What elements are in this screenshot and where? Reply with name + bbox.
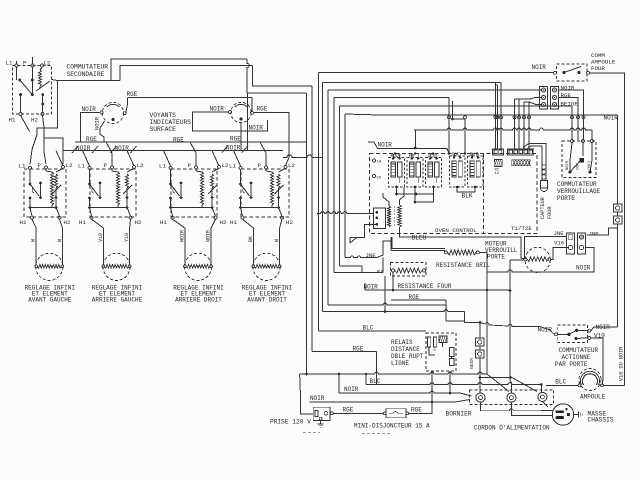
nest bus line 4 y97.5 (334, 97, 449, 99)
wire motor left up to BLEU wire (522, 258, 525, 260)
svg-text:NOIR: NOIR (210, 106, 225, 113)
square contact S2 right of relais (476, 350, 485, 358)
svg-text:L1: L1 (6, 60, 13, 67)
svg-text:NOIR: NOIR (532, 64, 547, 71)
wire y272.5 from x333.8 (334, 272, 383, 274)
terminal rings on line y115 (448, 116, 451, 119)
element E3 terminals (184, 265, 187, 268)
svg-text:RGE: RGE (343, 407, 354, 414)
svg-text:H1: H1 (20, 219, 27, 226)
S1 resistor (39, 70, 42, 86)
svg-text:NOIR: NOIR (82, 106, 97, 113)
wire V10 row to motor right (551, 248, 569, 260)
short wire y157.5 under rail (283, 155, 323, 158)
wire hop then vertical x247 down (247, 59, 249, 93)
svg-text:AVANT GAUCHE: AVANT GAUCHE (28, 297, 72, 304)
wire y377.5 diag to circle3 (480, 377, 511, 379)
SW2 bottom bus (90, 207, 128, 209)
svg-text:W: W (57, 239, 63, 242)
svg-text:MINI-DISJONCTEUR 15 A: MINI-DISJONCTEUR 15 A (354, 423, 430, 430)
svg-text:FOUR: FOUR (591, 65, 605, 72)
SW2 central coil (117, 172, 120, 205)
verrouillage contacts (568, 170, 571, 173)
V1 bottom wire NOIR rotated (100, 121, 105, 142)
square terminal T2 on right bus (614, 216, 623, 224)
svg-text:H2: H2 (31, 117, 38, 124)
SW1 terminal H1 (31, 216, 34, 219)
SW4 bottom bus (241, 207, 279, 209)
svg-text:VOYANTS: VOYANTS (150, 112, 177, 119)
relay RDUF (389, 158, 405, 188)
capteur capsule (541, 181, 548, 189)
V1 right terminal (123, 112, 126, 115)
SW4 terminal H1 (241, 216, 244, 219)
ground chassis symbol (578, 412, 580, 418)
svg-text:NOIR: NOIR (249, 125, 264, 132)
surface element E3 circle (184, 253, 211, 280)
board divider dashed x483.5 (483, 154, 485, 234)
square contact S1 right of relais (476, 338, 485, 346)
wire V1 left to bus (81, 113, 100, 143)
relais coils (428, 337, 431, 347)
relay RR (407, 158, 423, 188)
actionne contacts (567, 333, 570, 336)
S1 terminal H1 (19, 113, 22, 116)
SW4 terminal H2 (281, 216, 284, 219)
svg-text:VERROUILLAGE: VERROUILLAGE (557, 188, 601, 195)
connector J1 block (540, 87, 548, 110)
svg-text:P: P (23, 60, 27, 67)
nest bus line 1 left vertical x318.3 down to y331 (317, 73, 319, 332)
svg-text:W: W (274, 239, 280, 242)
verticals feeding relays from nest (448, 98, 450, 154)
svg-text:T1/T2E: T1/T2E (511, 225, 532, 232)
element E4 resistor (254, 265, 278, 269)
svg-text:CAPTEUR: CAPTEUR (540, 197, 546, 219)
S1 internal contacts (16, 67, 18, 80)
svg-text:H2: H2 (286, 219, 293, 226)
wire actionne NOIR right to bus (591, 327, 618, 331)
voyant V2 indicator lamp (231, 102, 251, 122)
svg-text:H1: H1 (160, 219, 167, 226)
wire scan artifact dashes (362, 433, 391, 435)
svg-text:COMMUTATEUR: COMMUTATEUR (557, 181, 597, 188)
wire S1 right side down to box1 L1 (30, 81, 58, 165)
resistance gril resistor (448, 250, 477, 255)
resistance four resistor (395, 268, 422, 273)
NOIR wire y290 (365, 289, 510, 291)
SW1 right resistor (56, 168, 63, 172)
svg-text:COMMUTATEUR: COMMUTATEUR (67, 64, 109, 71)
right bus x617.5 continues to NOIR junction (617, 228, 619, 327)
wire V1 right RGE up (126, 98, 128, 113)
wire from S1 H1 down-right (21, 116, 30, 132)
wire y130 corner down to verrouillage (591, 130, 593, 140)
surface element E2 circle (103, 253, 130, 280)
svg-text:RGE: RGE (411, 407, 422, 414)
svg-text:(NC): (NC) (587, 161, 592, 170)
nest bus line 3 y90 (328, 89, 541, 91)
capteur four sensor (542, 165, 546, 169)
SW2 terminal H1 (90, 216, 93, 219)
svg-text:ACTIONNE: ACTIONNE (562, 354, 591, 361)
nest bus line 1 y72.5 (318, 72, 554, 74)
V2 left terminal (229, 111, 232, 114)
svg-text:V10 DU NOIR: V10 DU NOIR (619, 347, 625, 381)
S1 terminal P (31, 64, 34, 67)
commutateur verrouillage porte box (562, 141, 596, 178)
svg-text:H1: H1 (9, 117, 16, 124)
svg-text:P: P (104, 162, 108, 169)
rail RGE y142 over boxes (75, 141, 307, 143)
wires connector to verrouillage switch (559, 90, 584, 140)
svg-text:L2: L2 (44, 60, 51, 67)
svg-text:RGE: RGE (409, 294, 420, 301)
wire from S1 left terminal L1 bus (16, 61, 18, 64)
wires into strips from nest (494, 83, 496, 149)
bus NOIR y59 (111, 59, 244, 81)
relais internal wires (442, 343, 444, 348)
svg-text:BLK: BLK (462, 193, 473, 200)
actionne left terminal (555, 333, 558, 336)
wire branch up x120 to y65.5 (120, 66, 253, 81)
wire x446 down (445, 300, 447, 321)
nest line4 left vert x333.8 down to y272.5 (333, 98, 335, 273)
svg-text:RGE: RGE (257, 106, 268, 113)
svg-text:OVEN CONTROL: OVEN CONTROL (435, 227, 477, 234)
svg-text:BEIGE: BEIGE (561, 100, 579, 107)
dots on board top edge (394, 152, 396, 154)
RGE wire y300 (391, 299, 446, 301)
branch y137.8 to L2-1 (44, 138, 63, 164)
svg-text:V10: V10 (554, 240, 565, 247)
wire top into relay area (415, 148, 449, 153)
wire x511 into B2 (510, 378, 511, 393)
svg-text:NOIR: NOIR (310, 395, 325, 402)
nest line6 left vert x344.9 down to JNE wire (344, 114, 346, 258)
svg-text:BK: BK (248, 236, 254, 242)
wire V2 right to bus x289 (254, 113, 290, 166)
wire V2 left to bus loop (193, 112, 268, 131)
strip connector B (508, 149, 534, 155)
wire x541 into B3 (540, 385, 542, 393)
BLC wire y331 (318, 330, 426, 332)
wire stub from S1 P terminal up (32, 57, 34, 64)
long NOIR wire y130 with hops (414, 128, 592, 130)
SW2 right resistor (127, 168, 134, 172)
SW1 terminal L2 (62, 165, 65, 168)
svg-text:NOIR: NOIR (566, 160, 570, 170)
svg-text:BORNIER: BORNIER (446, 411, 472, 418)
voyant V1 indicator lamp (102, 102, 123, 123)
svg-text:RGE: RGE (173, 137, 184, 144)
wire y374 across to bornier (300, 372, 487, 374)
wire connector row2 right to NOIR y272 (585, 248, 594, 272)
svg-text:CORDON D'ALIMENTATION: CORDON D'ALIMENTATION (474, 425, 550, 432)
infinite switch SW1 box (24, 169, 66, 217)
SW1 central coil (51, 172, 54, 205)
wire y93 from x247.5 to x306.5 (248, 92, 307, 94)
wire from S1 right side y80 (52, 80, 112, 81)
SW3 central coil (201, 172, 204, 205)
bornier terminal B2 (507, 393, 516, 402)
connector JNE block (567, 233, 575, 254)
commutateur secondaire S1 box (13, 66, 52, 115)
svg-text:PRISE 120 V: PRISE 120 V (270, 419, 311, 426)
svg-text:H1: H1 (79, 219, 86, 226)
svg-text:JNE: JNE (589, 231, 600, 238)
wire pair to grill feed (392, 237, 445, 249)
svg-text:NOIR: NOIR (576, 265, 591, 272)
svg-text:NOIR: NOIR (469, 358, 475, 369)
prise 120V box (313, 407, 330, 420)
svg-text:L1: L1 (19, 163, 26, 170)
svg-text:P: P (38, 162, 42, 169)
wires bornier to plug (481, 402, 542, 410)
component under strip B (512, 160, 530, 166)
svg-text:COM: COM (577, 162, 581, 170)
wire JNE y257.5 (345, 256, 377, 258)
svg-text:RESISTANCE GRIL: RESISTANCE GRIL (436, 262, 490, 269)
svg-text:RGE: RGE (230, 136, 241, 143)
wire RGE y97.5 to V2 (128, 97, 253, 99)
svg-text:AVANT DROIT: AVANT DROIT (247, 297, 287, 304)
svg-text:BLEU: BLEU (412, 235, 427, 242)
svg-text:BLC: BLC (555, 379, 566, 386)
element E1 lead wires (35, 254, 37, 265)
svg-text:RESISTANCE FOUR: RESISTANCE FOUR (398, 283, 452, 290)
mini-disjoncteur breaker (386, 409, 406, 418)
svg-text:PORTE: PORTE (487, 254, 505, 261)
svg-text:INDICATEURS: INDICATEURS (150, 119, 192, 126)
wire y290 left end up (364, 283, 366, 290)
vertical x510 motor left down (509, 260, 511, 378)
svg-text:H1: H1 (230, 219, 237, 226)
svg-text:NOIR: NOIR (226, 145, 241, 152)
SW3 right resistor (212, 168, 219, 172)
transformer top wires (383, 193, 389, 206)
S1 terminal L1 (15, 64, 18, 67)
nest line5 left vert x339.5 down to y266 (339, 106, 341, 266)
relais contacts (450, 348, 455, 357)
svg-text:P: P (188, 162, 192, 169)
svg-text:NOIR: NOIR (344, 386, 359, 393)
transformer TR1 box (374, 208, 386, 229)
prise ground (320, 420, 322, 424)
surface element E1 circle (36, 253, 63, 280)
svg-text:SECONDAIRE: SECONDAIRE (67, 71, 105, 78)
SW2 interior contacts (89, 169, 91, 183)
wire gril right down (479, 252, 487, 272)
svg-text:NOIR: NOIR (364, 284, 379, 291)
bus vertical x312 from y86 down to RGE y351.5 (311, 86, 313, 352)
SW1 terminal H2 (58, 216, 61, 219)
relay right group bottom wires (457, 187, 475, 192)
svg-text:D: D (434, 349, 436, 353)
transformer windings (387, 206, 390, 227)
sloped NOIR wire to actionne switch (480, 323, 554, 335)
nest line3 left vert x328 down to y305 (327, 90, 329, 305)
right bus x617.5 (617, 117, 619, 204)
wire vertical x252.5 to y86 then right (253, 66, 313, 87)
svg-text:H2: H2 (64, 219, 71, 226)
svg-text:NOIR: NOIR (378, 142, 393, 149)
feed stubs to connector (519, 98, 541, 100)
svg-text:L1: L1 (159, 163, 166, 170)
BLC wire 2 y384.5 (366, 383, 541, 385)
svg-text:W: W (31, 239, 37, 242)
SW1 interior contacts (29, 169, 31, 183)
element E2 terminals (102, 265, 105, 268)
RGE wire y351.5 (312, 351, 377, 353)
SW3 interior contacts (170, 169, 172, 183)
wire ampoule right to outer bus (604, 384, 625, 386)
component under strip A (494, 159, 502, 166)
element E2 lead wires (102, 254, 104, 265)
ampoule terminals (578, 384, 581, 387)
relay bottom bus (397, 193, 434, 195)
wire y311.5 (323, 310, 465, 312)
nest bus line 6 y114-115 (345, 114, 380, 115)
NOIR wire y402 (309, 401, 455, 403)
NOIR wire y393 (338, 374, 340, 393)
element E3 lead wires (184, 254, 186, 265)
strip connector A (493, 149, 504, 155)
SW1 terminal L1 (29, 166, 32, 169)
infinite switch SW4 box (241, 169, 289, 217)
oven control board outline (370, 154, 538, 234)
svg-text:ARRIERE DROIT: ARRIERE DROIT (175, 297, 222, 304)
SW2 terminal L2 (133, 165, 136, 168)
SW4 interior contacts (240, 169, 242, 183)
oven lamp switch right terminal (587, 71, 590, 74)
wire hop line y213.5 into transformer (318, 212, 373, 214)
wire y374 left to prise corner (299, 374, 301, 375)
svg-text:L1: L1 (78, 163, 85, 170)
plug prongs (556, 410, 565, 413)
rail NOIR y150.5 (63, 150, 283, 152)
NOIR wire y272 horizontal (487, 270, 591, 272)
bus vertical x306.5 from y93 down to y374 (306, 93, 308, 374)
svg-text:NOIR: NOIR (179, 230, 185, 242)
svg-text:DISTANCE: DISTANCE (391, 346, 420, 353)
vertical x480 through squares (479, 323, 481, 339)
svg-text:RELAIS: RELAIS (391, 339, 413, 346)
svg-text:COF: COF (452, 152, 461, 158)
svg-text:H2: H2 (135, 219, 142, 226)
V1 left terminal (100, 111, 103, 114)
wire BLC to ampoule (546, 384, 578, 386)
svg-text:12: 12 (495, 172, 500, 176)
relais distance dble rupt ligne box (426, 333, 456, 371)
comm ampoule four switch box (557, 64, 588, 81)
wire y305 (328, 303, 446, 305)
wire plug to ground (574, 414, 579, 416)
JNE wire up to grill feed (377, 241, 391, 258)
svg-text:RGE: RGE (353, 346, 364, 353)
motor verrouillage circle (525, 247, 550, 272)
svg-text:CO: CO (377, 177, 382, 181)
svg-text:L2: L2 (66, 162, 73, 169)
capteur wires up and loop (527, 146, 542, 181)
wire NOIR into board (368, 142, 415, 148)
actionne right terminals (588, 329, 591, 332)
resistance four box (391, 263, 427, 277)
wires from switches to elements (32, 219, 36, 253)
svg-text:PAR PORTE: PAR PORTE (555, 361, 588, 368)
wire prise left (309, 413, 314, 415)
wire motor left to x510 (510, 259, 524, 261)
wire comm four right to outer right bus (590, 73, 625, 386)
svg-text:PORTE: PORTE (557, 195, 575, 202)
square terminal T1 on right bus (614, 204, 623, 212)
svg-text:NOIR: NOIR (538, 327, 553, 334)
vertical x376.6 down to BLC2 (376, 352, 378, 385)
relay COF (450, 156, 466, 187)
SW2 terminal L1 (88, 166, 91, 169)
svg-text:NOIR: NOIR (95, 116, 101, 130)
bornier terminal B1 (476, 393, 485, 402)
motor terminals (524, 258, 527, 261)
ampoule filament (583, 374, 598, 385)
relay BK (468, 156, 484, 187)
svg-text:V10: V10 (98, 233, 104, 242)
svg-text:BLC: BLC (370, 378, 381, 385)
SW4 right resistor (279, 168, 286, 172)
oven lamp switch left terminal (554, 71, 557, 74)
SW3 terminal H2 (214, 216, 217, 219)
infinite switch SW2 box (90, 169, 136, 217)
svg-text:LIGNE: LIGNE (391, 360, 409, 367)
svg-text:1CR: 1CR (428, 153, 437, 159)
SW3 bottom bus (171, 207, 213, 209)
transformer bottom-left wire (350, 224, 377, 243)
SW2 terminal P (111, 166, 114, 169)
element E3 resistor (186, 265, 210, 269)
vertical x383 from y241 to y272.5 (382, 258, 384, 273)
commutateur actionne par porte box (558, 325, 588, 343)
element E1 resistor (37, 265, 61, 269)
svg-text:H2: H2 (220, 219, 227, 226)
svg-text:BLC: BLC (363, 325, 374, 332)
diagonal into bornier B2 (487, 374, 509, 392)
vertical x487 down (486, 272, 488, 374)
wire x415 from y130 down (414, 130, 416, 148)
wire breaker to x432 (409, 402, 432, 413)
bornier terminal B3 (538, 392, 547, 401)
wire JNE left to motor left (525, 236, 567, 257)
svg-text:NOIR: NOIR (76, 145, 91, 152)
svg-text:AMPOULE: AMPOULE (580, 394, 606, 401)
wire y321 to actionne switch (446, 320, 465, 322)
diagonal drops to switch terminals (56, 151, 63, 167)
infinite switch SW3 box (171, 169, 217, 217)
svg-text:L2: L2 (137, 162, 144, 169)
svg-text:Y10: Y10 (124, 233, 130, 242)
svg-text:L1: L1 (229, 163, 236, 170)
element E4 terminals (252, 265, 255, 268)
SW3 terminal H1 (171, 216, 174, 219)
vertical x300 down to prise (300, 375, 309, 414)
wire V10 from actionne down to lamp (591, 338, 603, 385)
board terminal COM (373, 175, 376, 178)
stub x366 (365, 374, 367, 385)
ampoule lamp circle (579, 369, 601, 391)
nest bus line 2 y82.5 (323, 82, 502, 84)
element E2 resistor (104, 265, 128, 269)
svg-text:NOIR: NOIR (604, 115, 619, 122)
link between squares (617, 212, 619, 216)
